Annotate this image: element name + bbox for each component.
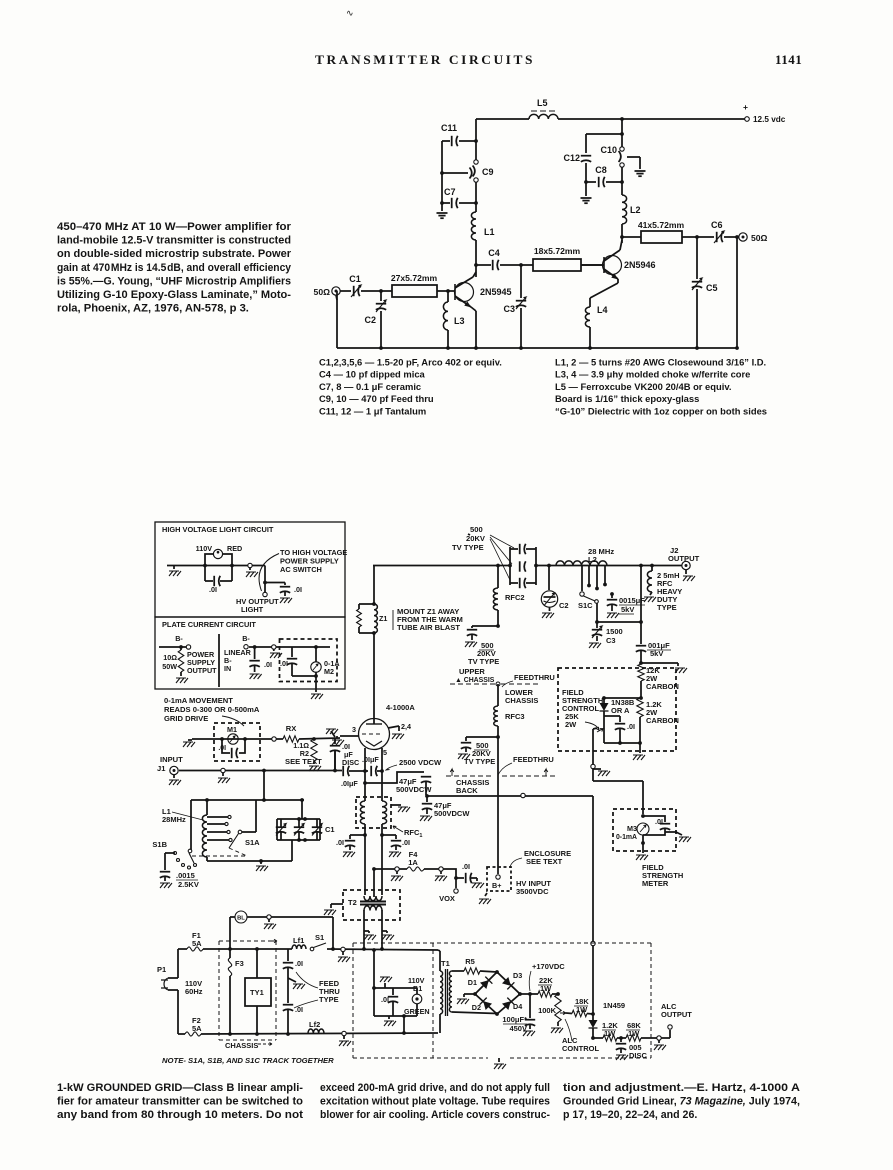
svg-text:C4 — 10 pf dipped mica: C4 — 10 pf dipped mica [319, 369, 426, 380]
svg-text:1-kW GROUNDED GRID—Class B lin: 1-kW GROUNDED GRID—Class B linear ampli- [57, 1082, 303, 1094]
svg-text:500: 500 [470, 525, 483, 534]
svg-text:R5: R5 [465, 957, 475, 966]
svg-text:C3: C3 [606, 636, 616, 645]
svg-text:.0I: .0I [295, 959, 303, 968]
svg-text:fier for amateur transmitter c: fier for amateur transmitter can be swit… [57, 1095, 304, 1107]
svg-text:L2: L2 [588, 555, 597, 564]
svg-text:Lf1: Lf1 [293, 936, 304, 945]
svg-text:C1,2,3,5,6 — 1.5-20 pF, Arco 4: C1,2,3,5,6 — 1.5-20 pF, Arco 402 or equi… [319, 357, 502, 368]
svg-text:5kV: 5kV [621, 605, 634, 614]
svg-text:D2: D2 [472, 1003, 481, 1012]
svg-text:TY1: TY1 [250, 988, 264, 997]
svg-text:C9: C9 [482, 167, 494, 177]
svg-text:CARBON: CARBON [646, 716, 679, 725]
svg-text:gain at 470 MHz is 14.5 dB, an: gain at 470 MHz is 14.5 dB, and overall … [57, 262, 292, 274]
svg-text:P1: P1 [157, 965, 166, 974]
svg-text:M1: M1 [227, 725, 237, 734]
svg-text:10Ω: 10Ω [163, 653, 177, 662]
svg-text:TV TYPE: TV TYPE [464, 757, 495, 766]
svg-text:.0I: .0I [402, 838, 410, 847]
svg-text:SEE TEXT: SEE TEXT [285, 757, 322, 766]
svg-text:1N459: 1N459 [603, 1001, 625, 1010]
svg-text:C4: C4 [488, 248, 500, 258]
svg-text:.0I: .0I [627, 722, 635, 731]
svg-text:60Hz: 60Hz [185, 987, 203, 996]
svg-text:C11: C11 [441, 123, 457, 133]
svg-text:M2: M2 [324, 667, 334, 676]
svg-text:TV TYPE: TV TYPE [452, 543, 484, 552]
svg-text:L4: L4 [597, 305, 608, 315]
svg-text:S1B: S1B [152, 840, 167, 849]
svg-text:L5 — Ferroxcube VK200 20/4B or: L5 — Ferroxcube VK200 20/4B or equiv. [555, 381, 731, 392]
svg-text:OUTPUT: OUTPUT [668, 554, 700, 563]
svg-text:Board is 1/16” thick epoxy-gla: Board is 1/16” thick epoxy-glass [555, 393, 699, 404]
svg-text:METER: METER [642, 879, 669, 888]
svg-text:BACK: BACK [456, 786, 478, 795]
svg-text:+170VDC: +170VDC [532, 962, 565, 971]
svg-text:AC SWITCH: AC SWITCH [280, 565, 322, 574]
svg-text:CARBON: CARBON [646, 682, 679, 691]
svg-text:.0I: .0I [264, 660, 272, 669]
svg-text:S1A: S1A [245, 838, 260, 847]
svg-text:5A: 5A [192, 1024, 202, 1033]
svg-text:L5: L5 [537, 98, 548, 108]
svg-text:▲ CHASSIS: ▲ CHASSIS [455, 677, 495, 684]
svg-text:T2: T2 [348, 898, 357, 907]
svg-text:2N5946: 2N5946 [624, 260, 656, 270]
svg-text:RFC3: RFC3 [505, 712, 525, 721]
svg-text:RFC2: RFC2 [505, 593, 525, 602]
svg-text:FEEDTHRU: FEEDTHRU [513, 755, 554, 764]
svg-text:SEE TEXT: SEE TEXT [526, 857, 563, 866]
svg-text:S1C: S1C [578, 601, 593, 610]
svg-text:T1: T1 [441, 959, 450, 968]
svg-text:.0IμF: .0IμF [341, 779, 358, 788]
svg-text:p 17, 19–20, 22–24, and 26.: p 17, 19–20, 22–24, and 26. [563, 1109, 697, 1121]
svg-text:C7, 8 — 0.1 μF ceramic: C7, 8 — 0.1 μF ceramic [319, 381, 421, 392]
svg-text:3500VDC: 3500VDC [516, 887, 549, 896]
svg-text:50Ω: 50Ω [314, 287, 331, 297]
svg-text:B+: B+ [492, 881, 501, 890]
svg-text:OR A: OR A [611, 706, 630, 715]
svg-text:Z1: Z1 [379, 614, 387, 623]
svg-text:blower for air cooling. Articl: blower for air cooling. Article covers c… [320, 1109, 550, 1121]
svg-text:CHASSIS: CHASSIS [505, 696, 538, 705]
svg-text:.0015: .0015 [176, 871, 195, 880]
svg-text:READS 0-300 OR 0-500mA: READS 0-300 OR 0-500mA [164, 705, 260, 714]
svg-text:LIGHT: LIGHT [241, 605, 264, 614]
svg-text:OUTPUT: OUTPUT [187, 666, 217, 675]
svg-text:.0I: .0I [280, 659, 288, 668]
svg-text:Utilizing G-10 Epoxy-Glass Lam: Utilizing G-10 Epoxy-Glass Laminate,” Mo… [57, 289, 291, 301]
svg-text:0-1mA MOVEMENT: 0-1mA MOVEMENT [164, 696, 233, 705]
svg-text:PLATE CURRENT CIRCUIT: PLATE CURRENT CIRCUIT [162, 620, 256, 629]
svg-text:.0I: .0I [294, 585, 302, 594]
svg-text:+: + [743, 102, 748, 112]
svg-text:S1: S1 [315, 933, 324, 942]
svg-text:2N5945: 2N5945 [480, 287, 512, 297]
svg-text:4-1000A: 4-1000A [386, 703, 415, 712]
svg-text:OUTPUT: OUTPUT [661, 1010, 692, 1019]
svg-text:L1, 2 — 5 turns #20 AWG Closew: L1, 2 — 5 turns #20 AWG Closewound 3/16”… [555, 357, 766, 368]
svg-text:L2: L2 [630, 205, 641, 215]
svg-text:INPUT: INPUT [160, 755, 183, 764]
svg-text:TV TYPE: TV TYPE [468, 657, 499, 666]
svg-text:any band from 80 through 10 me: any band from 80 through 10 meters. Do n… [57, 1109, 304, 1121]
svg-text:C5: C5 [706, 283, 718, 293]
svg-text:2W: 2W [565, 720, 577, 729]
svg-text:500VDCW: 500VDCW [434, 809, 470, 818]
svg-text:IN: IN [224, 664, 231, 673]
svg-text:on double-sided microstrip sub: on double-sided microstrip substrate. Po… [57, 248, 292, 260]
svg-text:.0I: .0I [462, 862, 470, 871]
svg-text:TYPE: TYPE [319, 995, 339, 1004]
svg-text:excitation without plate volta: excitation without plate voltage. Tube r… [320, 1095, 550, 1107]
svg-text:2,4: 2,4 [401, 722, 411, 731]
svg-text:CHASSIS: CHASSIS [225, 1041, 258, 1050]
svg-text:L3: L3 [454, 316, 465, 326]
svg-text:GREEN: GREEN [404, 1007, 430, 1016]
svg-text:C10: C10 [600, 145, 617, 155]
svg-text:Grounded Grid Linear, 73 Magaz: Grounded Grid Linear, 73 Magazine, July … [563, 1095, 800, 1107]
svg-text:F3: F3 [235, 959, 244, 968]
svg-text:1141: 1141 [775, 52, 802, 67]
svg-text:5A: 5A [192, 939, 202, 948]
svg-text:.0I: .0I [295, 1005, 303, 1014]
svg-text:D1: D1 [468, 978, 477, 987]
svg-text:rola, Phoenix, AZ, 1976, AN-57: rola, Phoenix, AZ, 1976, AN-578, p 3. [57, 303, 249, 315]
svg-text:FEEDTHRU: FEEDTHRU [514, 673, 555, 682]
svg-text:VOX: VOX [439, 894, 455, 903]
svg-text:CONTROL: CONTROL [562, 1044, 599, 1053]
svg-text:DISC: DISC [342, 758, 359, 767]
svg-text:C9, 10 — 470 pf Feed thru: C9, 10 — 470 pf Feed thru [319, 393, 434, 404]
svg-text:M3: M3 [627, 824, 637, 833]
svg-text:C12: C12 [563, 153, 580, 163]
svg-text:12.5 vdc: 12.5 vdc [753, 115, 786, 124]
svg-text:0-1mA: 0-1mA [616, 834, 637, 841]
svg-text:C8: C8 [595, 165, 607, 175]
svg-text:110V: 110V [196, 544, 213, 553]
svg-text:J1: J1 [157, 764, 166, 773]
svg-text:450V: 450V [509, 1024, 527, 1033]
svg-text:UPPER: UPPER [459, 667, 485, 676]
svg-text:2500 VDCW: 2500 VDCW [399, 758, 442, 767]
svg-text:is 55%.—G. Young, “UHF Microst: is 55%.—G. Young, “UHF Microstrip Amplif… [57, 275, 291, 287]
svg-text:“G-10” Dielectric with 1oz cop: “G-10” Dielectric with 1oz copper on bot… [555, 405, 767, 416]
svg-text:C7: C7 [444, 187, 456, 197]
svg-text:100μF*: 100μF* [502, 1015, 527, 1024]
svg-text:500VDCW: 500VDCW [396, 785, 432, 794]
svg-text:.0I: .0I [336, 838, 344, 847]
svg-text:50W: 50W [162, 662, 177, 671]
svg-text:5: 5 [383, 748, 387, 757]
svg-text:NOTE- S1A, S1B, AND S1C TRACK: NOTE- S1A, S1B, AND S1C TRACK TOGETHER [162, 1056, 334, 1065]
svg-text:C3: C3 [503, 304, 515, 314]
svg-text:TUBE AIR BLAST: TUBE AIR BLAST [397, 623, 460, 632]
svg-text:C1: C1 [325, 825, 335, 834]
svg-text:.0I: .0I [655, 817, 663, 826]
svg-text:100K: 100K [538, 1006, 557, 1015]
svg-text:2.5KV: 2.5KV [178, 880, 199, 889]
svg-text:L3, 4 — 3.9 μhy molded choke w: L3, 4 — 3.9 μhy molded choke w/ferrite c… [555, 369, 750, 380]
svg-text:.0I: .0I [209, 585, 217, 594]
svg-text:D4: D4 [513, 1002, 522, 1011]
svg-text:RX: RX [286, 724, 297, 733]
svg-text:tion and adjustment.—E. Hartz,: tion and adjustment.—E. Hartz, 4-1000 A [563, 1082, 800, 1094]
svg-text:50Ω: 50Ω [751, 233, 768, 243]
svg-text:land-mobile 12.5-V transmitter: land-mobile 12.5-V transmitter is constr… [57, 235, 291, 247]
svg-text:B1: B1 [413, 984, 422, 993]
svg-text:C2: C2 [364, 315, 376, 325]
svg-text:RED: RED [227, 544, 242, 553]
svg-text:L1: L1 [484, 227, 495, 237]
svg-text:C2: C2 [559, 601, 569, 610]
svg-text:HIGH VOLTAGE LIGHT CIRCUIT: HIGH VOLTAGE LIGHT CIRCUIT [162, 525, 274, 534]
svg-text:18x5.72mm: 18x5.72mm [534, 246, 581, 256]
svg-text:.0I: .0I [381, 995, 389, 1004]
svg-text:C11, 12 — 1 μf Tantalum: C11, 12 — 1 μf Tantalum [319, 405, 426, 416]
svg-text:3: 3 [352, 725, 356, 734]
svg-text:27x5.72mm: 27x5.72mm [391, 273, 438, 283]
svg-text:41x5.72mm: 41x5.72mm [638, 220, 685, 230]
svg-text:GRID DRIVE: GRID DRIVE [164, 714, 208, 723]
svg-text:B-: B- [242, 634, 250, 643]
svg-text:28MHz: 28MHz [162, 815, 186, 824]
svg-text:C1: C1 [349, 274, 361, 284]
svg-text:Lf2: Lf2 [309, 1020, 320, 1029]
svg-text:1500: 1500 [606, 627, 623, 636]
svg-text:1A: 1A [408, 858, 418, 867]
svg-text:B-: B- [175, 634, 183, 643]
svg-text:DISC: DISC [629, 1051, 648, 1060]
svg-text:BL: BL [237, 916, 245, 922]
svg-text:D3: D3 [513, 971, 522, 980]
svg-text:TYPE: TYPE [657, 603, 677, 612]
svg-text:∿: ∿ [346, 8, 354, 18]
svg-text:exceed 200-mA grid drive, and: exceed 200-mA grid drive, and do not app… [320, 1082, 550, 1094]
svg-text:450–470 MHz AT 10 W—Power ampl: 450–470 MHz AT 10 W—Power amplifier for [57, 221, 292, 233]
svg-text:.0I: .0I [218, 745, 226, 752]
svg-text:TRANSMITTER CIRCUITS: TRANSMITTER CIRCUITS [315, 52, 535, 67]
svg-text:C6: C6 [711, 220, 723, 230]
